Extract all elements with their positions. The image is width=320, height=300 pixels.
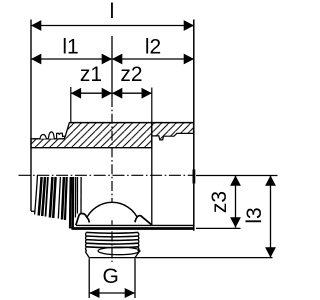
flange right wing (135, 216, 152, 225)
hatched section right nut wall (152, 123, 194, 140)
svg-text:z2: z2 (120, 63, 142, 86)
thread crest lines (86, 232, 138, 247)
dimension G arrow right (125, 288, 135, 298)
svg-text:z3: z3 (208, 191, 231, 213)
branch dome (86, 202, 139, 220)
flange left wing (76, 214, 90, 226)
flange top line (76, 224, 194, 226)
end face and l3 bottom extension line (89, 257, 272, 259)
dimension z1 arrow right (102, 88, 112, 99)
dimension z3 arrow top (230, 176, 241, 186)
dimension l1/l2 line (31, 58, 194, 60)
extension line right (l/l2) and fitting right edge (193, 20, 195, 231)
dimension z2 arrow right (142, 88, 152, 99)
dimension G line (89, 292, 135, 294)
dimension l arrow right (184, 20, 194, 31)
svg-text:l1: l1 (62, 36, 78, 59)
dimension z1/z2 line (71, 92, 152, 94)
dimension z3 line (235, 176, 237, 228)
z3 top / l3 top extension line (196, 175, 278, 177)
dimension z3 arrow bottom (230, 217, 241, 227)
dimension l arrow left (31, 20, 41, 31)
extension line left (l/l1) and fitting left edge (30, 20, 32, 212)
z3 bottom extension line (196, 227, 241, 229)
extension line G left (88, 258, 90, 298)
centerline horizontal dash-dot (19, 174, 195, 176)
press sleeve ribs (35, 175, 82, 229)
svg-text:l3: l3 (243, 207, 266, 223)
svg-text:z1: z1 (80, 63, 102, 86)
dimension G arrow left (89, 288, 99, 298)
dimension l2 arrow left (112, 54, 122, 65)
svg-text:l2: l2 (145, 36, 161, 59)
dimension l line (31, 25, 194, 27)
dimension l3 arrow bottom (265, 247, 276, 257)
dimension l1 arrow right (102, 54, 112, 65)
dimension l1 arrow left (31, 54, 41, 65)
extension line center vertical (solid upper part) (111, 36, 113, 97)
svg-text:G: G (103, 265, 119, 288)
nut front edge vertical (151, 136, 153, 226)
extension line G right (134, 258, 136, 298)
svg-text:l: l (110, 0, 115, 23)
dimension l3 line (270, 176, 272, 258)
thread right edge (135, 233, 139, 258)
centerline branch vertical dash-dot (111, 97, 113, 262)
extension line z2 right (151, 88, 153, 123)
thread left edge (86, 233, 90, 258)
dimension l3 arrow top (265, 176, 276, 186)
serration teeth profile (40, 132, 65, 139)
dimension l2 arrow right (184, 54, 194, 65)
hatched section left+middle wall (31, 123, 152, 148)
dimension z1 arrow left (71, 88, 81, 99)
sleeve end face bottom edge (31, 210, 36, 212)
fitting top edge (69, 122, 193, 124)
centerline tick at right edge (192, 170, 195, 184)
extension line z1 left (70, 87, 72, 123)
fitting bottom edge thick (72, 227, 194, 230)
thread runout ellipse (98, 247, 140, 255)
dimension z2 arrow left (112, 88, 122, 99)
